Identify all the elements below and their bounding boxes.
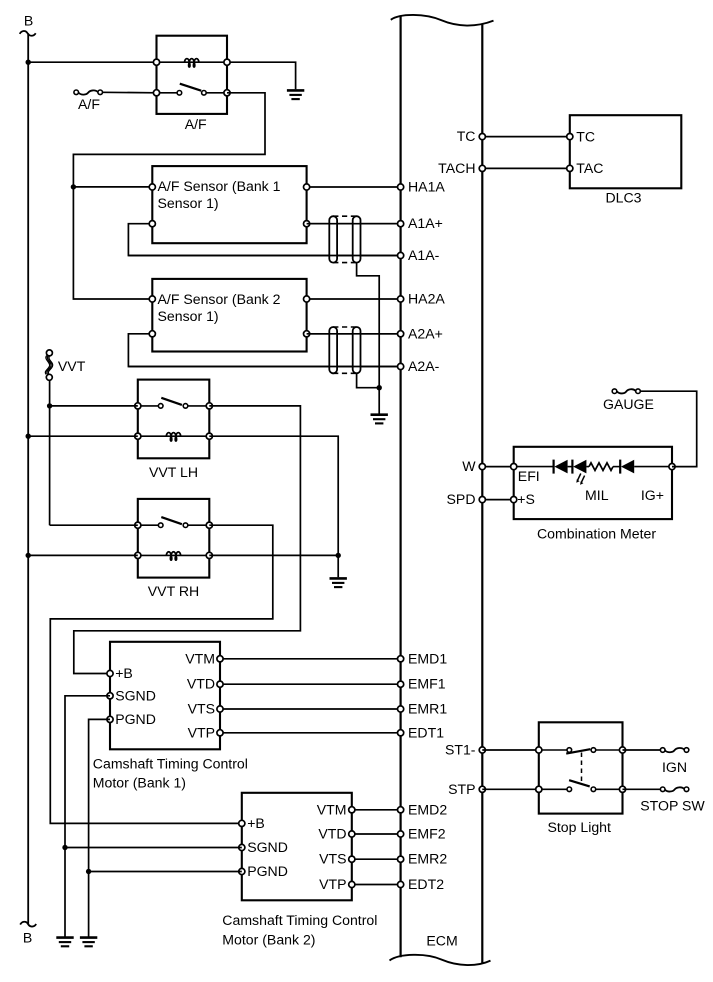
svg-text:EDT2: EDT2: [408, 876, 444, 892]
svg-text:TC: TC: [576, 128, 595, 144]
svg-text:+S: +S: [517, 491, 535, 507]
svg-text:A/F Sensor (Bank 1: A/F Sensor (Bank 1: [158, 178, 281, 194]
svg-text:W: W: [462, 458, 476, 474]
svg-text:Sensor 1): Sensor 1): [158, 308, 219, 324]
svg-text:IG+: IG+: [641, 487, 664, 503]
svg-text:A/F Sensor (Bank 2: A/F Sensor (Bank 2: [158, 291, 281, 307]
svg-text:A/F: A/F: [185, 116, 207, 132]
svg-text:MIL: MIL: [585, 487, 609, 503]
svg-text:VTM: VTM: [185, 650, 215, 666]
svg-text:PGND: PGND: [247, 863, 288, 879]
svg-text:STP: STP: [448, 781, 475, 797]
svg-text:+B: +B: [115, 665, 133, 681]
svg-text:VTS: VTS: [188, 701, 215, 717]
svg-text:TC: TC: [457, 128, 476, 144]
svg-text:VTS: VTS: [319, 851, 346, 867]
svg-text:Combination Meter: Combination Meter: [537, 526, 656, 542]
svg-text:HA2A: HA2A: [408, 291, 445, 307]
svg-text:Camshaft Timing Control: Camshaft Timing Control: [93, 755, 248, 771]
svg-text:VTP: VTP: [188, 724, 215, 740]
svg-text:TAC: TAC: [576, 160, 603, 176]
svg-text:A1A-: A1A-: [408, 247, 440, 263]
svg-text:A2A-: A2A-: [408, 358, 440, 374]
svg-text:EMR2: EMR2: [408, 851, 447, 867]
svg-text:A2A+: A2A+: [408, 325, 443, 341]
svg-text:EMF1: EMF1: [408, 676, 446, 692]
svg-text:Motor (Bank 1): Motor (Bank 1): [93, 775, 186, 791]
svg-text:Camshaft Timing Control: Camshaft Timing Control: [222, 912, 377, 928]
svg-text:VTP: VTP: [319, 876, 346, 892]
svg-text:ECM: ECM: [426, 932, 457, 948]
svg-text:VTD: VTD: [187, 676, 215, 692]
svg-text:PGND: PGND: [115, 711, 156, 727]
svg-text:A/F: A/F: [78, 96, 100, 112]
svg-text:VVT LH: VVT LH: [149, 464, 198, 480]
svg-text:B: B: [23, 929, 32, 945]
svg-text:SGND: SGND: [247, 839, 288, 855]
svg-text:VVT RH: VVT RH: [148, 583, 199, 599]
svg-text:TACH: TACH: [438, 160, 475, 176]
svg-text:EMR1: EMR1: [408, 701, 447, 717]
svg-text:Stop Light: Stop Light: [547, 819, 611, 835]
svg-text:VVT: VVT: [58, 358, 86, 374]
svg-text:EFI: EFI: [518, 468, 540, 484]
svg-text:DLC3: DLC3: [605, 190, 641, 206]
svg-text:SGND: SGND: [115, 687, 156, 703]
svg-text:HA1A: HA1A: [408, 179, 445, 195]
svg-text:VTD: VTD: [318, 826, 346, 842]
svg-text:IGN: IGN: [662, 759, 687, 775]
svg-text:EMF2: EMF2: [408, 826, 446, 842]
svg-text:EMD2: EMD2: [408, 801, 447, 817]
svg-text:B: B: [24, 12, 33, 28]
svg-text:STOP SW: STOP SW: [640, 798, 705, 814]
svg-text:ST1-: ST1-: [445, 742, 476, 758]
svg-text:SPD: SPD: [447, 491, 476, 507]
svg-text:+B: +B: [247, 815, 265, 831]
svg-text:Motor (Bank 2): Motor (Bank 2): [222, 931, 315, 947]
svg-text:VTM: VTM: [317, 801, 347, 817]
svg-text:GAUGE: GAUGE: [603, 396, 654, 412]
svg-text:A1A+: A1A+: [408, 215, 443, 231]
svg-text:EMD1: EMD1: [408, 650, 447, 666]
svg-text:Sensor 1): Sensor 1): [158, 195, 219, 211]
svg-text:EDT1: EDT1: [408, 724, 444, 740]
